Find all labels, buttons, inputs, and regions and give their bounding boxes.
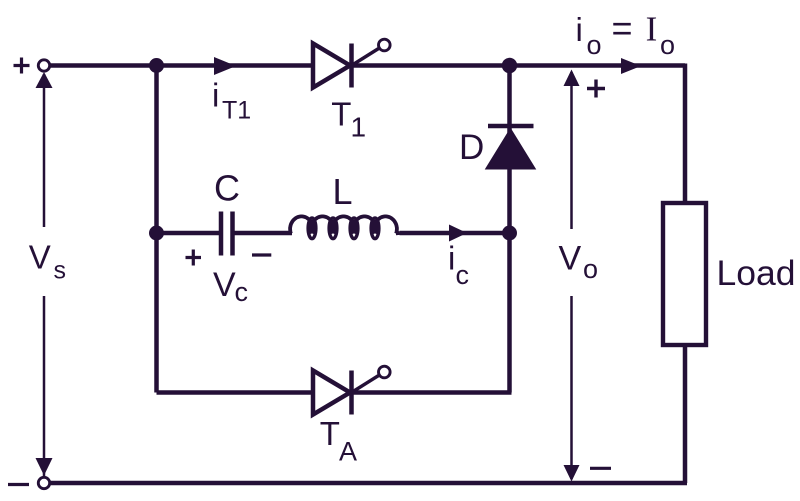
svg-text:o: o	[587, 30, 602, 60]
minus sign capacitor	[252, 253, 271, 256]
inductor L coil	[290, 216, 399, 233]
thyristor TA triangle	[313, 371, 350, 415]
svg-text:c: c	[456, 260, 470, 290]
svg-text:T: T	[331, 96, 351, 133]
junction node dot mid-left	[149, 226, 164, 241]
plus sign source top-left	[14, 58, 30, 74]
source terminal top-left circle	[38, 60, 49, 71]
wire left branch vertical	[154, 66, 159, 393]
wire middle branch inductor to node	[400, 231, 510, 236]
svg-text:o: o	[583, 254, 598, 284]
capacitor C plate left	[219, 212, 224, 256]
plus sign Vo top	[587, 80, 605, 98]
wire commutation bottom branch left	[157, 390, 316, 395]
svg-text:V: V	[213, 266, 236, 304]
svg-text:I: I	[646, 10, 658, 49]
minus sign source bottom-left	[8, 483, 29, 486]
thyristor TA gate lead	[352, 374, 382, 393]
svg-text:T: T	[320, 415, 340, 452]
svg-text:i: i	[212, 76, 219, 113]
diode D triangle	[487, 130, 535, 169]
thyristor T1 gate terminal circle	[379, 39, 391, 51]
arrow Vo top (up)	[564, 70, 580, 87]
Vo measurement line upper	[570, 72, 573, 229]
diode D cathode bar	[488, 124, 534, 129]
arrow Vo bottom (down)	[564, 465, 580, 482]
wire top rail	[49, 63, 685, 68]
minus sign Vo bottom	[590, 467, 611, 470]
svg-text:Load: Load	[717, 253, 796, 293]
thyristor TA cathode bar	[349, 371, 354, 415]
Vs measurement line upper	[43, 74, 46, 227]
junction node dot top-left	[149, 58, 164, 73]
junction node dot mid diode	[502, 226, 517, 241]
thyristor T1 triangle	[313, 44, 350, 88]
svg-text:s: s	[54, 257, 67, 285]
wire right rail upper	[683, 64, 688, 204]
svg-text:V: V	[29, 239, 51, 276]
svg-text:1: 1	[351, 112, 367, 143]
thyristor T1 gate lead	[352, 47, 382, 66]
junction node dot top diode	[502, 58, 517, 73]
arrow Vs bottom (down)	[36, 458, 53, 476]
svg-text:A: A	[339, 436, 357, 466]
arrow Vs top (up)	[36, 72, 53, 88]
svg-text:c: c	[235, 277, 249, 307]
wire right rail lower	[683, 345, 688, 483]
svg-text:L: L	[333, 171, 353, 212]
arrow io on top wire	[621, 58, 641, 74]
svg-text:T1: T1	[222, 97, 251, 125]
svg-text:V: V	[559, 240, 582, 278]
svg-text:o: o	[660, 30, 675, 60]
wire diode branch vertical	[507, 66, 512, 393]
wire commutation bottom branch right	[352, 390, 512, 395]
Vs measurement line lower	[43, 296, 46, 476]
thyristor T1 cathode bar	[349, 44, 354, 88]
wire bottom rail	[49, 481, 687, 486]
svg-text:i: i	[448, 240, 455, 277]
wire middle branch cap to inductor	[233, 231, 293, 236]
capacitor C plate right	[230, 212, 235, 256]
svg-text:C: C	[214, 167, 240, 208]
load resistor rectangle	[663, 203, 706, 345]
Vo measurement line lower	[570, 296, 573, 479]
svg-text:D: D	[459, 128, 484, 167]
arrow iT1 on top wire	[214, 57, 236, 75]
svg-text:i: i	[576, 11, 583, 48]
wire middle branch cap lead left	[157, 231, 222, 236]
thyristor TA gate terminal circle	[379, 366, 391, 378]
svg-text:=: =	[612, 8, 633, 49]
arrow ic on middle branch	[449, 225, 467, 242]
source terminal bottom-left circle	[38, 477, 49, 488]
plus sign capacitor	[186, 250, 202, 266]
